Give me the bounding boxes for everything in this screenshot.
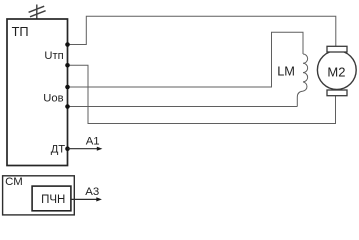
svg-text:А3: А3	[85, 186, 99, 198]
svg-text:ДТ: ДТ	[51, 144, 66, 156]
svg-text:СМ: СМ	[5, 176, 23, 188]
svg-text:ТП: ТП	[12, 24, 29, 39]
svg-text:А1: А1	[86, 135, 100, 147]
svg-text:ПЧН: ПЧН	[41, 194, 65, 206]
svg-text:Uов: Uов	[43, 93, 63, 105]
svg-text:Uтп: Uтп	[44, 50, 63, 62]
svg-text:М2: М2	[327, 64, 345, 79]
svg-text:LM: LM	[277, 63, 295, 78]
